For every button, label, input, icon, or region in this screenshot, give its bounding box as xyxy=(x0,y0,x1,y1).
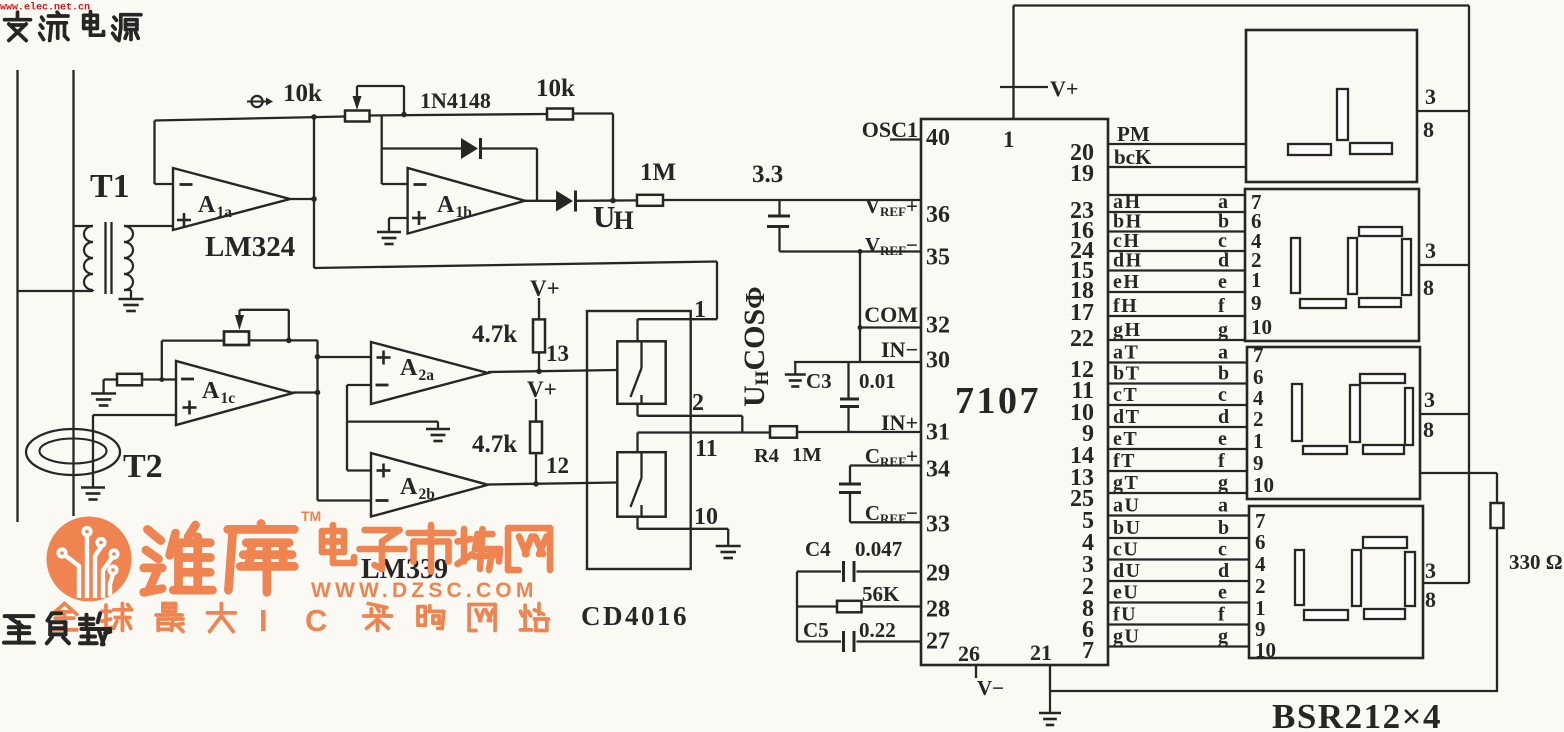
svg-text:3: 3 xyxy=(1425,84,1436,109)
svg-text:CD4016: CD4016 xyxy=(581,601,689,631)
svg-text:T2: T2 xyxy=(123,448,163,485)
transformer T1 primary winding xyxy=(84,226,93,290)
wire DS3 to anode rail xyxy=(1420,413,1469,415)
svg-text:dT: dT xyxy=(1113,406,1140,428)
watermark slogan row xyxy=(52,604,77,630)
svg-text:b: b xyxy=(1218,363,1229,385)
wire A1c output xyxy=(293,391,318,393)
svg-text:1a: 1a xyxy=(217,204,233,221)
wire A1c wiper loop xyxy=(240,309,289,311)
display DS3 outline xyxy=(1247,347,1420,499)
diode 1N4148 (output rectifier) xyxy=(556,191,573,212)
wire A1c input resistor to ground xyxy=(104,378,117,380)
wire DS2 to anode rail xyxy=(1419,264,1469,266)
ground at A1b noninverting input xyxy=(388,231,390,232)
potentiometer wiper arrow (A1c) xyxy=(238,310,240,316)
svg-text:d: d xyxy=(1218,250,1229,272)
wire V+ to 4.7k resistor xyxy=(538,298,540,319)
svg-text:7107: 7107 xyxy=(955,380,1041,422)
display DS1 segments (digit 1) xyxy=(1337,89,1348,140)
wire A1b output xyxy=(525,200,556,202)
wire A1c pot to output riser xyxy=(249,339,318,341)
svg-text:A: A xyxy=(400,355,418,381)
junction UH node xyxy=(610,198,616,204)
resistor 56K (pin 28) xyxy=(797,605,837,607)
svg-text:d: d xyxy=(1218,560,1229,582)
svg-text:a: a xyxy=(1218,495,1228,517)
display DS4 segments xyxy=(1295,550,1304,605)
junction A1c inverting node xyxy=(159,377,164,382)
svg-text:2a: 2a xyxy=(419,367,435,384)
svg-text:27: 27 xyxy=(926,629,950,655)
svg-text:C4: C4 xyxy=(805,537,831,561)
svg-text:56K: 56K xyxy=(862,582,900,606)
svg-text:fH: fH xyxy=(1113,295,1138,317)
wire A1b inverting input riser xyxy=(381,115,383,184)
svg-text:I: I xyxy=(259,603,268,638)
svg-text:17: 17 xyxy=(1070,300,1094,326)
svg-text:cT: cT xyxy=(1113,384,1138,406)
wire DS1 to anode rail xyxy=(1417,110,1469,112)
svg-text:19: 19 xyxy=(1070,161,1094,187)
diode 1N4148 (A1b feedback) xyxy=(461,138,478,159)
watermark brand characters 维库 xyxy=(144,525,213,592)
svg-text:OSC1: OSC1 xyxy=(862,117,918,142)
wire R4 left xyxy=(742,431,770,433)
svg-text:c: c xyxy=(1218,384,1227,406)
wire CREF+ to 7107 pin 34 xyxy=(850,464,921,466)
svg-text:U: U xyxy=(593,199,615,234)
svg-text:gH: gH xyxy=(1113,319,1142,341)
svg-text:cU: cU xyxy=(1113,539,1139,561)
analog switch S2 symbol xyxy=(640,452,642,478)
svg-text:gU: gU xyxy=(1113,626,1140,648)
ground at A1c input resistor xyxy=(102,393,104,394)
wire pin 21 to ground bus xyxy=(1049,665,1051,691)
svg-text:10k: 10k xyxy=(283,80,322,107)
svg-text:2b: 2b xyxy=(419,486,435,503)
wire T1 primary top to rail 2 xyxy=(74,225,94,227)
wire T1 secondary top to A1a noninverting input xyxy=(124,225,173,227)
wire CD4016 pin 10 xyxy=(636,517,638,529)
wire oscillator network left bus xyxy=(796,572,798,642)
svg-text:8: 8 xyxy=(1423,275,1434,300)
wire VREF- to COM riser xyxy=(859,252,861,363)
svg-text:12: 12 xyxy=(546,453,569,478)
wire AC rail 1 (left) xyxy=(16,70,18,522)
junction A1a feedback tap xyxy=(311,114,317,120)
junction A2a output pull-up xyxy=(536,369,542,375)
wire pin 26 V- stub xyxy=(975,665,977,678)
svg-text:10: 10 xyxy=(1255,638,1276,662)
wire 7107 pin 1 V+ riser xyxy=(1012,6,1014,120)
wire A1b inverting input xyxy=(382,183,408,185)
wire DS4 to anode rail xyxy=(1423,582,1469,584)
svg-text:1: 1 xyxy=(1251,268,1262,292)
op-amp A1c xyxy=(176,361,293,425)
svg-text:fU: fU xyxy=(1113,604,1137,626)
svg-text:c: c xyxy=(1218,539,1227,561)
wire potentiometer wiper loop xyxy=(357,85,404,87)
wire segment ladder T group xyxy=(1108,361,1247,363)
wire DS3 to 330 ohm resistor xyxy=(1420,472,1497,474)
display DS2 outline xyxy=(1245,189,1419,341)
transformer T1 core xyxy=(104,222,106,294)
wire A1a feedback left riser xyxy=(153,121,155,185)
resistor 10k (feedback to UH node) xyxy=(547,109,573,120)
svg-text:4.7k: 4.7k xyxy=(472,431,517,458)
wire comparator reference to A2b noninverting xyxy=(346,422,348,471)
svg-text:8: 8 xyxy=(1423,417,1434,442)
svg-text:8: 8 xyxy=(1423,117,1434,142)
svg-text:A: A xyxy=(437,192,455,218)
svg-text:32: 32 xyxy=(926,313,950,339)
svg-text:d: d xyxy=(1218,406,1229,428)
wire 4.7k to A2a output xyxy=(538,352,540,371)
svg-text:29: 29 xyxy=(926,561,950,587)
svg-text:V+: V+ xyxy=(527,377,557,402)
resistor 4.7k (A2a pull-up) xyxy=(533,319,545,352)
svg-text:fT: fT xyxy=(1113,450,1136,472)
wire VREF- to 7107 pin 35 xyxy=(780,250,922,252)
wire A1a output xyxy=(290,198,314,200)
svg-text:10: 10 xyxy=(694,504,718,530)
svg-text:eH: eH xyxy=(1113,271,1140,293)
wire pin2/pin11 jog xyxy=(741,416,743,433)
wire AC rail 2 xyxy=(72,70,74,516)
svg-text:4.7k: 4.7k xyxy=(472,321,517,348)
potentiometer wiper arrow xyxy=(356,86,358,97)
wire PM line xyxy=(1108,143,1246,145)
svg-text:10k: 10k xyxy=(536,75,575,102)
wire IN+ to 7107 pin 31 xyxy=(797,431,921,433)
svg-text:bT: bT xyxy=(1113,363,1140,385)
wire A2b output to CD4016 pin 12 xyxy=(488,483,617,485)
svg-text:COM: COM xyxy=(864,302,918,327)
svg-text:A: A xyxy=(198,192,216,218)
comparator A2b xyxy=(371,453,488,517)
svg-text:aT: aT xyxy=(1113,342,1139,364)
svg-text:0.22: 0.22 xyxy=(859,618,896,642)
svg-text:1c: 1c xyxy=(221,390,236,407)
svg-text:A: A xyxy=(400,474,418,500)
svg-text:10: 10 xyxy=(1253,473,1274,497)
wire V+ top bus xyxy=(1014,4,1470,6)
svg-text:V+: V+ xyxy=(530,276,560,301)
wire V+ to 4.7k resistor (A2b) xyxy=(535,399,537,422)
wire A1c noninverting input xyxy=(93,414,176,416)
svg-text:330 Ω: 330 Ω xyxy=(1509,550,1563,574)
svg-text:g: g xyxy=(1218,626,1228,648)
svg-text:31: 31 xyxy=(926,420,950,446)
wire 10k resistor to UH drop xyxy=(573,112,613,114)
svg-text:UHCOSΦ: UHCOSΦ xyxy=(738,286,773,407)
wire COM to 7107 pin 32 xyxy=(860,326,921,328)
junction A2a noninverting tap xyxy=(315,354,321,360)
junction A1a output node xyxy=(311,196,317,202)
svg-text:f: f xyxy=(1218,604,1225,626)
svg-text:a: a xyxy=(1218,342,1228,364)
svg-text:g: g xyxy=(1218,472,1228,494)
wire feedback diode cathode xyxy=(481,147,538,149)
svg-text:eU: eU xyxy=(1113,582,1139,604)
ground below T1 secondary xyxy=(130,296,132,299)
wire CD4016 pin 1 xyxy=(638,318,718,320)
analog switch S2 box xyxy=(617,452,665,517)
svg-text:aU: aU xyxy=(1113,495,1140,517)
wire T1 secondary bottom xyxy=(124,289,131,291)
wire segment ladder U group xyxy=(1108,514,1249,516)
svg-text:35: 35 xyxy=(926,245,950,271)
resistor 330 ohm xyxy=(1491,503,1504,528)
ground at comparator reference xyxy=(437,422,439,429)
svg-text:g: g xyxy=(1218,319,1228,341)
svg-text:26: 26 xyxy=(958,641,980,666)
svg-text:C: C xyxy=(305,603,327,638)
wire 10k drop to UH node xyxy=(612,114,614,201)
svg-text:H: H xyxy=(614,206,634,235)
label to load (至负载) xyxy=(4,616,34,643)
svg-text:A: A xyxy=(202,378,220,404)
svg-text:7: 7 xyxy=(1082,638,1094,664)
svg-text:IN−: IN− xyxy=(881,337,918,362)
svg-text:4: 4 xyxy=(1255,552,1266,576)
svg-text:36: 36 xyxy=(926,202,950,228)
wire CD4016 pin 2 xyxy=(636,404,638,416)
capacitor CREF xyxy=(849,466,851,483)
capacitor C3 (IN- to IN+) xyxy=(847,362,849,398)
wire A1c feedback riser xyxy=(161,341,163,380)
svg-text:40: 40 xyxy=(926,125,950,151)
pin OSC1 wire xyxy=(890,138,921,140)
phase adjust symbol xyxy=(247,101,268,103)
svg-text:LM324: LM324 xyxy=(205,231,295,263)
svg-text:bU: bU xyxy=(1113,517,1142,539)
svg-text:3: 3 xyxy=(1425,558,1436,583)
wire A1c inverting input xyxy=(142,378,176,380)
svg-text:34: 34 xyxy=(926,457,950,483)
svg-text:7: 7 xyxy=(1253,343,1264,367)
svg-text:1N4148: 1N4148 xyxy=(420,88,491,113)
wire A1b noninverting input xyxy=(389,217,408,219)
wire 330 ohm to ground bus xyxy=(1496,528,1498,691)
svg-text:e: e xyxy=(1218,582,1227,604)
svg-text:0.01: 0.01 xyxy=(859,369,896,393)
ground at CD4016 pin 10 xyxy=(727,545,729,546)
comparator A2a xyxy=(371,342,488,404)
svg-text:R4: R4 xyxy=(754,445,779,467)
wire A2a inverting to ground tap xyxy=(347,420,438,422)
op-amp A1b xyxy=(408,168,525,234)
svg-text:TM: TM xyxy=(301,508,321,524)
svg-text:0.047: 0.047 xyxy=(855,537,902,561)
junction COM node xyxy=(858,325,863,330)
svg-text:V+: V+ xyxy=(1050,76,1078,101)
svg-text:33: 33 xyxy=(926,512,950,538)
power V+ tick xyxy=(1000,86,1048,88)
display DS3 segments xyxy=(1292,384,1302,441)
svg-text:2: 2 xyxy=(1255,574,1266,598)
svg-text:1: 1 xyxy=(1003,127,1015,152)
wire switch S1 input riser xyxy=(636,319,638,341)
svg-text:PM: PM xyxy=(1117,122,1150,146)
svg-text:11: 11 xyxy=(695,436,718,462)
svg-text:C3: C3 xyxy=(806,369,832,393)
wire 1M to 7107 VREF+ pin 36 xyxy=(663,199,921,201)
current transformer T2 toroid xyxy=(26,429,120,475)
svg-text:3.3: 3.3 xyxy=(752,161,783,188)
svg-text:V−: V− xyxy=(977,676,1004,700)
svg-text:1M: 1M xyxy=(792,444,822,466)
wire feedback diode anode xyxy=(382,147,461,149)
capacitor C4 (pin 29) xyxy=(797,570,841,572)
svg-text:1b: 1b xyxy=(456,204,472,221)
svg-text:8: 8 xyxy=(1425,587,1436,612)
svg-text:3: 3 xyxy=(1425,238,1436,263)
wire segment ladder H group xyxy=(1108,194,1245,196)
svg-text:IN+: IN+ xyxy=(881,410,918,435)
resistor 4.7k (A2b pull-up) xyxy=(530,422,542,454)
svg-text:b: b xyxy=(1218,517,1229,539)
display DS2 segments xyxy=(1291,238,1300,293)
junction A1c wiper loop node xyxy=(286,338,292,344)
wire CREF- to 7107 pin 33 xyxy=(850,521,921,523)
svg-text:28: 28 xyxy=(926,597,950,623)
capacitor C5 (pin 27) xyxy=(797,640,841,642)
svg-text:gT: gT xyxy=(1113,472,1139,494)
ground at IN- network xyxy=(794,362,796,375)
junction wiper loop to main wire xyxy=(401,112,407,118)
ground at 7107 pin 21 xyxy=(1049,691,1051,713)
svg-text:1: 1 xyxy=(1253,429,1264,453)
transformer T1 secondary winding xyxy=(124,226,133,290)
wire A2a noninverting input xyxy=(318,356,372,358)
wire IN- to 7107 pin 30 xyxy=(794,361,921,363)
resistor 1M (UH to VREF+) xyxy=(637,195,663,206)
op-amp A1a xyxy=(173,168,290,230)
svg-text:e: e xyxy=(1218,271,1227,293)
wire T1 primary bottom to rail 1 xyxy=(18,290,94,292)
wire CD4016 pin 11 xyxy=(638,431,743,433)
IC 7107 outline xyxy=(921,119,1108,665)
svg-text:9: 9 xyxy=(1253,451,1264,475)
svg-text:BSR212×4: BSR212×4 xyxy=(1272,697,1442,732)
wire A1c noninverting to T2 xyxy=(92,415,94,486)
potentiometer (A1c feedback) xyxy=(224,332,249,346)
wire A2a inverting input xyxy=(347,384,371,386)
analog switch S1 box xyxy=(617,341,665,404)
svg-text:3: 3 xyxy=(1424,387,1435,412)
wire right anode rail xyxy=(1468,6,1470,584)
svg-text:1: 1 xyxy=(694,297,706,323)
svg-text:1M: 1M xyxy=(640,159,676,186)
svg-text:f: f xyxy=(1218,295,1225,317)
IC CD4016 outline xyxy=(587,311,691,569)
svg-text:www.elec.net.cn: www.elec.net.cn xyxy=(0,2,90,14)
svg-text:f: f xyxy=(1218,450,1225,472)
wire 4.7k to A2b output xyxy=(535,453,537,484)
svg-text:dU: dU xyxy=(1113,560,1142,582)
display DS1 outline xyxy=(1246,30,1417,182)
svg-text:2: 2 xyxy=(692,390,704,416)
wire A1a feedback top xyxy=(155,117,346,121)
wire pot to 10k resistor xyxy=(370,114,548,116)
svg-text:21: 21 xyxy=(1030,640,1052,665)
wire A2b inverting input xyxy=(318,499,372,501)
svg-text:6: 6 xyxy=(1255,530,1266,554)
svg-text:WWW.DZSC.COM: WWW.DZSC.COM xyxy=(311,579,538,602)
wire A1c feedback top xyxy=(162,339,224,341)
svg-text:2: 2 xyxy=(1253,407,1264,431)
wire A2a output to CD4016 pin 13 xyxy=(488,370,617,372)
title text AC power source (交流电源) xyxy=(5,12,31,40)
resistor A1c input xyxy=(117,374,142,386)
junction VREF- riser xyxy=(858,249,863,254)
wire UH node xyxy=(576,199,637,202)
wire A1c output riser (to comparators) xyxy=(316,340,318,500)
svg-text:13: 13 xyxy=(546,341,569,366)
svg-text:e: e xyxy=(1218,428,1227,450)
svg-text:30: 30 xyxy=(926,348,950,374)
wire A1a inverting input xyxy=(155,183,174,185)
resistor R4 1M xyxy=(770,426,797,438)
capacitor 3.3 (VREF) xyxy=(778,200,780,215)
watermark characters 电子市场网 xyxy=(322,525,354,563)
wire A1a output riser xyxy=(313,117,315,269)
junction A2b output pull-up xyxy=(533,481,539,487)
svg-text:C5: C5 xyxy=(803,618,829,642)
analog switch S1 symbol xyxy=(640,341,642,368)
potentiometer 10k (A1a feedback) xyxy=(345,111,370,122)
watermark logo circle xyxy=(47,517,132,602)
svg-text:9: 9 xyxy=(1251,291,1262,315)
svg-text:bcK: bcK xyxy=(1114,145,1152,169)
svg-text:T1: T1 xyxy=(90,168,130,205)
svg-text:10: 10 xyxy=(1251,315,1272,339)
svg-text:dH: dH xyxy=(1113,250,1143,272)
junction A1c output node xyxy=(315,390,321,396)
wire bcK line xyxy=(1108,166,1246,168)
ground below T2 xyxy=(92,486,94,488)
svg-text:eT: eT xyxy=(1113,428,1138,450)
wire A1a output to CD4016 pin 1 (long bus) xyxy=(314,262,717,269)
svg-text:22: 22 xyxy=(1070,326,1094,352)
display DS4 outline xyxy=(1249,506,1423,658)
